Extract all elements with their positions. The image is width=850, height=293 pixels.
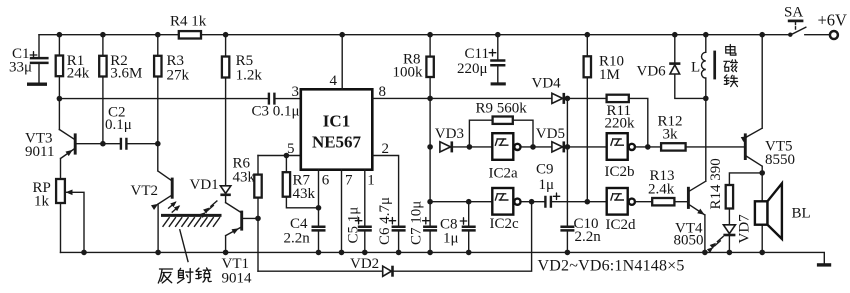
capacitor C6 (372, 156, 405, 253)
resistor R13 (648, 168, 687, 205)
node: R10 / C9 row junction (585, 199, 591, 205)
svg-text:4: 4 (330, 73, 338, 89)
capacitor C5 (346, 207, 372, 253)
svg-text:BL: BL (792, 206, 811, 222)
capacitor C10 (560, 216, 601, 245)
label 反射镜 (158, 268, 211, 283)
svg-text:R9 560k: R9 560k (476, 101, 528, 117)
diode VD7 (LED) (723, 214, 752, 253)
svg-text:27k: 27k (167, 67, 190, 83)
node: rail/R3 (155, 32, 161, 38)
svg-text:VD3: VD3 (435, 126, 464, 142)
node: VD5 cathode junction (565, 144, 571, 150)
svg-text:1μ: 1μ (443, 231, 459, 247)
resistor R2 (99, 35, 142, 144)
svg-text:VD5: VD5 (536, 126, 565, 142)
light arrows from VD1 (200, 201, 217, 218)
node: rail/R1 junction (57, 32, 63, 38)
node: VT5 collector / R14 / speaker junction (759, 170, 765, 176)
svg-text:33μ: 33μ (9, 60, 32, 76)
svg-text:C6 4.7μ: C6 4.7μ (377, 197, 393, 245)
capacitor C8 (440, 202, 476, 253)
node: RP wiper to ground rail (81, 250, 87, 256)
svg-text:5: 5 (287, 141, 295, 157)
svg-text:1.2k: 1.2k (236, 67, 263, 83)
resistor R14 (708, 158, 762, 225)
node: VT2 emitter to ground rail (155, 250, 161, 256)
node: rail/R8 (427, 32, 433, 38)
diode VD3 (435, 126, 470, 152)
node: rail/R10 (585, 32, 591, 38)
wire: VD4/VD5 junction column with C10 (566, 98, 568, 252)
op-amp / IC1 NE567 (301, 89, 373, 169)
node: VD3 cathode / R9 / IC2a input (467, 144, 473, 150)
char 铁 (724, 75, 737, 87)
node: VD4 cathode junction (565, 96, 571, 102)
svg-text:8550: 8550 (765, 152, 795, 168)
transistor VT5 (741, 35, 795, 173)
inverter IC2d (606, 188, 637, 233)
resistor R5 (222, 35, 262, 186)
svg-text:VD1: VD1 (190, 177, 219, 193)
resistor R4 (170, 13, 207, 38)
svg-text:C7 10μ: C7 10μ (409, 201, 425, 245)
svg-text:C5 1μ: C5 1μ (346, 207, 362, 244)
char 反 (158, 269, 172, 283)
diode VD1 (LED) (190, 177, 231, 203)
resistor R11 (605, 95, 636, 132)
svg-text:IC1: IC1 (323, 112, 350, 131)
node: rail/C11 (495, 32, 501, 38)
ground (C11) (491, 82, 506, 85)
potentiometer RP (33, 179, 85, 252)
transistor VT4 (674, 98, 707, 252)
node: C5 at ground (362, 250, 368, 256)
label 电磁铁 (724, 45, 738, 87)
svg-text:NE567: NE567 (312, 133, 362, 152)
node: VT1 emitter to ground (223, 250, 229, 256)
node: VT1 base / R6 / VD2-branch junction (255, 216, 261, 222)
node: rail/L (703, 32, 709, 38)
node: VT4 collector / VD6 / L junction (703, 96, 709, 102)
svg-text:1M: 1M (599, 67, 620, 83)
svg-text:VD7: VD7 (737, 214, 753, 244)
wire: pin8 row (372, 98, 648, 146)
node: C10 at ground (565, 250, 571, 256)
pin 6 (319, 170, 330, 226)
node: pin7 at ground (339, 250, 345, 256)
resistor R1 (56, 35, 90, 130)
resistor R10 (584, 35, 624, 202)
wire: +V top rail (39, 34, 790, 36)
transistor VT2 (photo) (131, 144, 173, 253)
inverter IC2b (605, 133, 635, 180)
svg-text:3.6M: 3.6M (110, 66, 142, 82)
svg-text:43k: 43k (293, 186, 316, 202)
svg-text:SA: SA (784, 5, 803, 21)
node: rail / VT5 emitter (759, 32, 765, 38)
svg-text:2.4k: 2.4k (648, 182, 675, 198)
node: column/IC2c input row junction (427, 199, 433, 205)
ground (main) (817, 263, 831, 266)
svg-text:VD2: VD2 (350, 256, 379, 272)
reflector mirror (161, 215, 222, 261)
resistor R6 (233, 155, 262, 218)
resistor R3 (154, 35, 189, 144)
svg-text:R4 1k: R4 1k (170, 13, 207, 29)
pin 4 (330, 35, 343, 90)
svg-text:1: 1 (367, 173, 375, 189)
diode VD2 (258, 202, 532, 277)
node: column/VD3 row junction (427, 144, 433, 150)
inverter IC2a (489, 133, 552, 181)
svg-text:3: 3 (292, 84, 300, 100)
wire: IC2a input (469, 146, 492, 148)
node: pin8/R8 junction (427, 96, 433, 102)
svg-text:3k: 3k (663, 127, 679, 143)
svg-text:6: 6 (322, 173, 330, 189)
node: IC2c output / VD2 branch (529, 199, 535, 205)
resistor R9 (469, 101, 533, 147)
node: rail/pin4 (339, 32, 345, 38)
svg-text:220k: 220k (605, 116, 636, 132)
char 磁 (724, 60, 738, 72)
capacitor C11 (457, 35, 505, 83)
svg-text:0.1μ: 0.1μ (105, 117, 132, 133)
svg-text:100k: 100k (393, 65, 424, 81)
svg-text:7: 7 (345, 173, 353, 189)
svg-text:IC2a: IC2a (489, 166, 519, 182)
wire: pin3 row (VT3 collector node to C3) (59, 98, 267, 100)
wire: R8/pin8 column down through rows to C7 and ground (429, 77, 431, 252)
node: IC2b output / R11 junction (645, 144, 651, 150)
wire: IC2b output to R12 (635, 146, 661, 148)
node: C7 at ground (427, 250, 433, 256)
svg-text:2.2n: 2.2n (284, 231, 311, 247)
ground rail (61, 252, 825, 263)
transistor VT3 (25, 130, 103, 180)
node: speaker at ground (759, 250, 765, 256)
char 电 (726, 45, 736, 56)
svg-text:R14 390: R14 390 (708, 158, 724, 209)
capacitor C4 (284, 216, 326, 252)
node: VT4 emitter at ground (702, 250, 708, 256)
wire: VT1 base node down to VD2 row (257, 218, 259, 271)
svg-text:1μ: 1μ (539, 177, 555, 193)
pin 1 (365, 170, 375, 226)
transistor VT1 (222, 203, 259, 287)
ground (C1) (27, 83, 47, 86)
node: rail/R2 (100, 32, 106, 38)
node: R7 / pin6 column junction (316, 205, 322, 211)
light arrows into VT2 (169, 199, 182, 212)
node: R9 / IC2a output junction (530, 144, 536, 150)
svg-text:2.2n: 2.2n (575, 229, 602, 245)
capacitor C1 (9, 35, 49, 84)
node: C6 at ground (396, 250, 402, 256)
node: C8 / IC2c input row (466, 199, 472, 205)
svg-text:9011: 9011 (25, 144, 54, 160)
capacitor C3 (252, 93, 301, 120)
svg-text:220μ: 220μ (457, 61, 488, 77)
node: rail/R5/R4 junction (223, 32, 229, 38)
svg-text:L: L (691, 60, 700, 76)
capacitor C7 (409, 201, 438, 245)
capacitor C9 (536, 162, 607, 208)
speaker BL (755, 173, 811, 253)
terminal +6V (818, 10, 848, 39)
svg-text:IC2c: IC2c (490, 216, 520, 232)
node: C8 at ground (466, 250, 472, 256)
svg-text:VD6: VD6 (637, 63, 667, 79)
diode VD4 (532, 75, 564, 104)
char 射 (178, 268, 193, 283)
node: rail/VD6 (672, 32, 678, 38)
pin 7 (342, 170, 354, 253)
svg-text:C3 0.1μ: C3 0.1μ (252, 103, 300, 119)
node: pin6/C4 column at ground (316, 250, 322, 256)
svg-text:24k: 24k (67, 66, 90, 82)
node: C2/R3/VT2 collector junction (155, 141, 161, 147)
char 镜 (196, 268, 211, 282)
svg-text:C11: C11 (465, 46, 489, 62)
inductor L (electromagnet coil) (691, 35, 715, 99)
svg-text:1k: 1k (34, 194, 50, 210)
wire: pin5 row (258, 155, 301, 157)
resistor R8 (393, 35, 434, 81)
diode VD6 (637, 35, 706, 99)
inverter IC2c (430, 188, 544, 232)
svg-text:VD4: VD4 (532, 75, 562, 91)
svg-text:9014: 9014 (222, 271, 253, 287)
diode VD5 (536, 126, 607, 152)
switch SA (784, 5, 829, 37)
node: R1/collector/pin3-row junction (57, 96, 63, 102)
resistor R7 (283, 156, 319, 208)
node: VD7 at ground (727, 250, 733, 256)
svg-text:VD2~VD6:1N4148×5: VD2~VD6:1N4148×5 (538, 258, 685, 275)
capacitor C2 (103, 105, 158, 150)
wire: IC2d output to R13 (635, 201, 652, 203)
svg-text:8050: 8050 (674, 233, 704, 249)
svg-text:43k: 43k (233, 169, 256, 185)
svg-text:IC2d: IC2d (606, 217, 637, 233)
resistor R12 (658, 114, 744, 151)
node: pin5 row / R7 junction (284, 153, 290, 159)
light arrows from VD7 (707, 237, 723, 253)
node: R2/base C2 junction (100, 141, 106, 147)
svg-text:+6V: +6V (818, 10, 848, 29)
svg-text:IC2b: IC2b (605, 164, 635, 180)
svg-text:VT2: VT2 (131, 183, 159, 199)
svg-text:C9: C9 (536, 162, 554, 178)
